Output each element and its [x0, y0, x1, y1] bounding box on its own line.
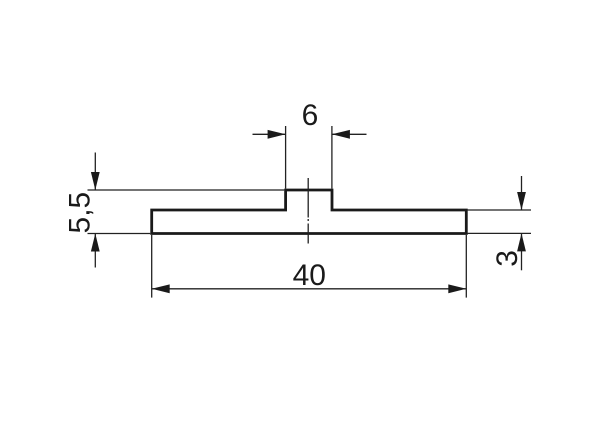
extension line 5,5 top	[88, 189, 285, 191]
dimension line 5,5 bottom tail	[94, 234, 96, 268]
extension line 3 top	[467, 209, 531, 211]
dimension line 3 bottom tail	[521, 233, 523, 270]
dimension line 6 left tail	[253, 133, 286, 135]
dimension line 3 top tail	[521, 176, 523, 210]
arrowhead 40 left	[152, 284, 170, 293]
dimension line 6 right tail	[332, 133, 367, 135]
extension line 6 left	[285, 126, 287, 189]
arrowhead 6 left	[268, 130, 286, 139]
extension line 5,5 bottom	[88, 233, 151, 235]
extension line 6 right	[331, 126, 333, 189]
svg-text:3: 3	[491, 250, 524, 267]
dimension line 40	[152, 288, 467, 290]
extension line 40 left	[151, 235, 153, 298]
svg-text:6: 6	[302, 99, 319, 132]
svg-text:5,5: 5,5	[63, 192, 96, 234]
profile outline (T-bar cross-section 40x3 with 6mm rib, thick line)	[152, 190, 467, 234]
dimension line 5,5 top tail	[94, 153, 96, 191]
extension line 40 right	[465, 235, 467, 298]
svg-text:40: 40	[293, 259, 326, 292]
extension line 3 bottom	[467, 232, 531, 234]
arrowhead 5,5 top	[91, 172, 100, 190]
centerline (dash-dot vertical axis)	[307, 178, 309, 244]
arrowhead 3 bottom	[517, 233, 526, 251]
arrowhead 3 top	[517, 192, 526, 210]
arrowhead 6 right	[332, 130, 350, 139]
arrowhead 5,5 bottom	[91, 234, 100, 252]
arrowhead 40 right	[448, 284, 466, 293]
